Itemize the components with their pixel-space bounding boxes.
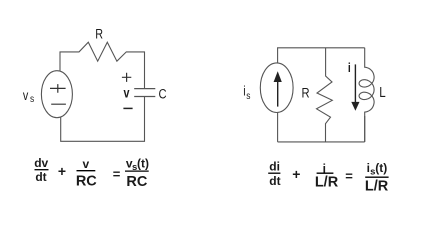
svg-text:v: v — [124, 85, 130, 100]
svg-text:L/R: L/R — [315, 175, 339, 191]
svg-text:R: R — [302, 85, 310, 100]
svg-text:i: i — [348, 61, 351, 75]
svg-text:v: v — [82, 157, 89, 171]
svg-text:L: L — [379, 84, 385, 101]
svg-text:(t): (t) — [375, 161, 387, 175]
svg-text:s: s — [246, 90, 250, 102]
svg-text:=: = — [345, 168, 353, 183]
svg-text:(t): (t) — [137, 157, 149, 171]
svg-text:R: R — [95, 26, 103, 41]
svg-text:i: i — [243, 83, 245, 98]
svg-text:s: s — [30, 93, 34, 105]
svg-text:RC: RC — [76, 173, 97, 189]
svg-text:=: = — [113, 167, 121, 182]
svg-text:di: di — [269, 160, 280, 174]
svg-text:RC: RC — [126, 174, 147, 190]
svg-text:dv: dv — [34, 156, 48, 170]
svg-text:L/R: L/R — [365, 178, 389, 194]
svg-text:+: + — [292, 166, 300, 182]
svg-text:v: v — [23, 88, 29, 103]
svg-text:dt: dt — [269, 174, 280, 188]
svg-text:+: + — [58, 163, 66, 179]
svg-text:dt: dt — [35, 170, 46, 184]
svg-text:C: C — [159, 86, 167, 101]
